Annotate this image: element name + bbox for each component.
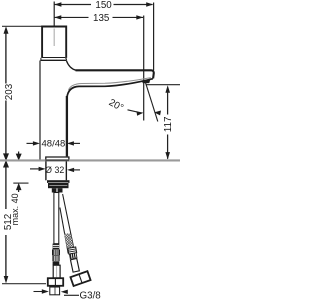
dimension 117 (146, 85, 181, 160)
knurled nut (dark, vertical stripes) (52, 249, 60, 255)
right hose left edge (60, 208, 68, 254)
knurl second section (52, 256, 59, 262)
tube to hex (53, 265, 60, 278)
gloss line on handle (53, 29, 55, 47)
svg-text:135: 135 (93, 13, 110, 24)
svg-text:G3/8: G3/8 (80, 291, 102, 300)
dimension 48/48 (27, 61, 81, 161)
right hose end connector box (70, 271, 90, 286)
wire: extension line at counter bottom (13, 182, 28, 184)
deck / countertop line (gray) (0, 159, 180, 161)
dimension 150 (54, 0, 153, 11)
faucet column (thick profile line) (66, 96, 68, 156)
20 deg annotation (107, 97, 161, 115)
wire: top-left extension line to handle top (53, 2, 55, 27)
wire: right extension line (135 dim, continues as angle reference) (143, 16, 145, 121)
svg-text:48/48: 48/48 (42, 139, 66, 150)
nipple G3/8 (50, 287, 60, 295)
wire: left extension line from lip to deck (39, 61, 41, 161)
right hose tube (70, 258, 79, 272)
spout underside main line with belly, curving into column (67, 79, 153, 98)
spout top surface and right end (76, 70, 154, 78)
spout underside highlight line (upper, gray) (69, 78, 151, 90)
faucet body: S curve from lip into spout top (66, 61, 76, 71)
wire: extension line at spout tip level (146, 84, 181, 86)
right hose ferrule (68, 247, 78, 259)
braided section (64, 234, 74, 251)
hex fitting (two facets) (48, 278, 63, 286)
aerator nub at spout tip (142, 79, 151, 83)
mounting washer and nut (47, 180, 70, 192)
wire: extension line at hose end level (2, 283, 46, 285)
dimension 203 (vertical line shared with 512) (3, 26, 15, 161)
left hose (vertical tube) (48, 193, 63, 295)
hose ferrule with stripes (53, 244, 60, 250)
faucet handle (42, 27, 66, 58)
svg-text:117: 117 (163, 117, 174, 133)
threaded shaft below deck (46, 161, 66, 180)
svg-text:Ø 32: Ø 32 (45, 165, 64, 175)
svg-text:max. 40: max. 40 (10, 193, 20, 225)
right hose (angled) (60, 193, 91, 286)
svg-text:203: 203 (4, 83, 15, 100)
right hose right edge (63, 194, 75, 254)
wire: extension line from handle top to 203 dim (2, 25, 42, 27)
dark collar (53, 261, 60, 265)
deck darker under base disc (45, 159, 69, 161)
dimension 135 (54, 13, 143, 24)
water stream line (20 deg) (145, 81, 158, 122)
dimension 512 (deck to hose end) (2, 160, 46, 284)
G3/8 label (34, 289, 102, 300)
svg-text:150: 150 (95, 0, 112, 11)
base disc on deck (46, 157, 69, 160)
handle base lip (40, 58, 66, 61)
wire: right extension line (150 dim) (153, 3, 155, 71)
dimension Ø 32 (30, 165, 80, 175)
dimension max. 40 (counter thickness) (10, 152, 28, 226)
